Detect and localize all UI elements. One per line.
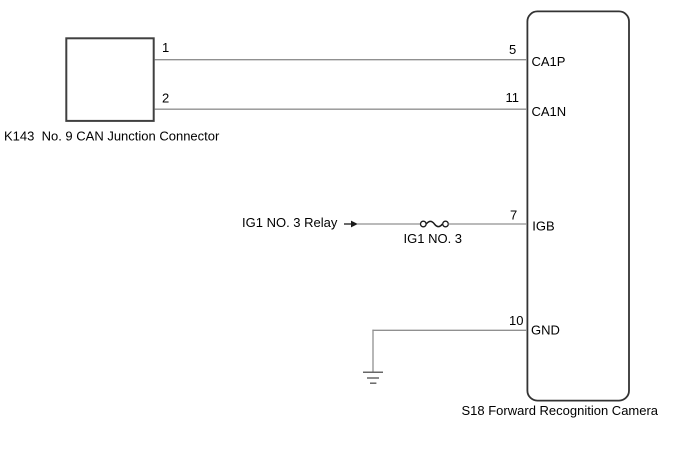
svg-text:2: 2 (162, 90, 169, 105)
wire GND vertical (372, 330, 374, 372)
svg-text:10: 10 (509, 313, 523, 328)
fuse IG1 NO. 3 (421, 221, 449, 227)
svg-text:IGB: IGB (532, 218, 554, 233)
svg-text:1: 1 (162, 40, 169, 55)
svg-text:GND: GND (531, 323, 560, 338)
svg-text:S18 Forward Recognition Camera: S18 Forward Recognition Camera (462, 403, 659, 418)
svg-text:CA1P: CA1P (532, 54, 566, 69)
wire IGB left segment (357, 223, 420, 225)
wire GND horizontal (372, 329, 527, 331)
camera S18 box (527, 11, 629, 400)
wire IGB right segment (449, 223, 528, 225)
wire CA1N (155, 108, 528, 110)
svg-text:7: 7 (510, 208, 517, 223)
svg-text:IG1 NO. 3: IG1 NO. 3 (404, 231, 463, 246)
svg-text:11: 11 (506, 90, 520, 105)
svg-text:5: 5 (509, 42, 516, 57)
svg-text:CA1N: CA1N (532, 104, 567, 119)
svg-text:IG1 NO. 3 Relay: IG1 NO. 3 Relay (242, 215, 338, 230)
ground (363, 372, 383, 383)
svg-text:K143 No. 9 CAN Junction Conne: K143 No. 9 CAN Junction Connector (4, 129, 220, 144)
arrow from IG1 NO. 3 Relay (344, 223, 352, 225)
connector K143 box (66, 38, 153, 121)
wire CA1P (155, 59, 528, 61)
